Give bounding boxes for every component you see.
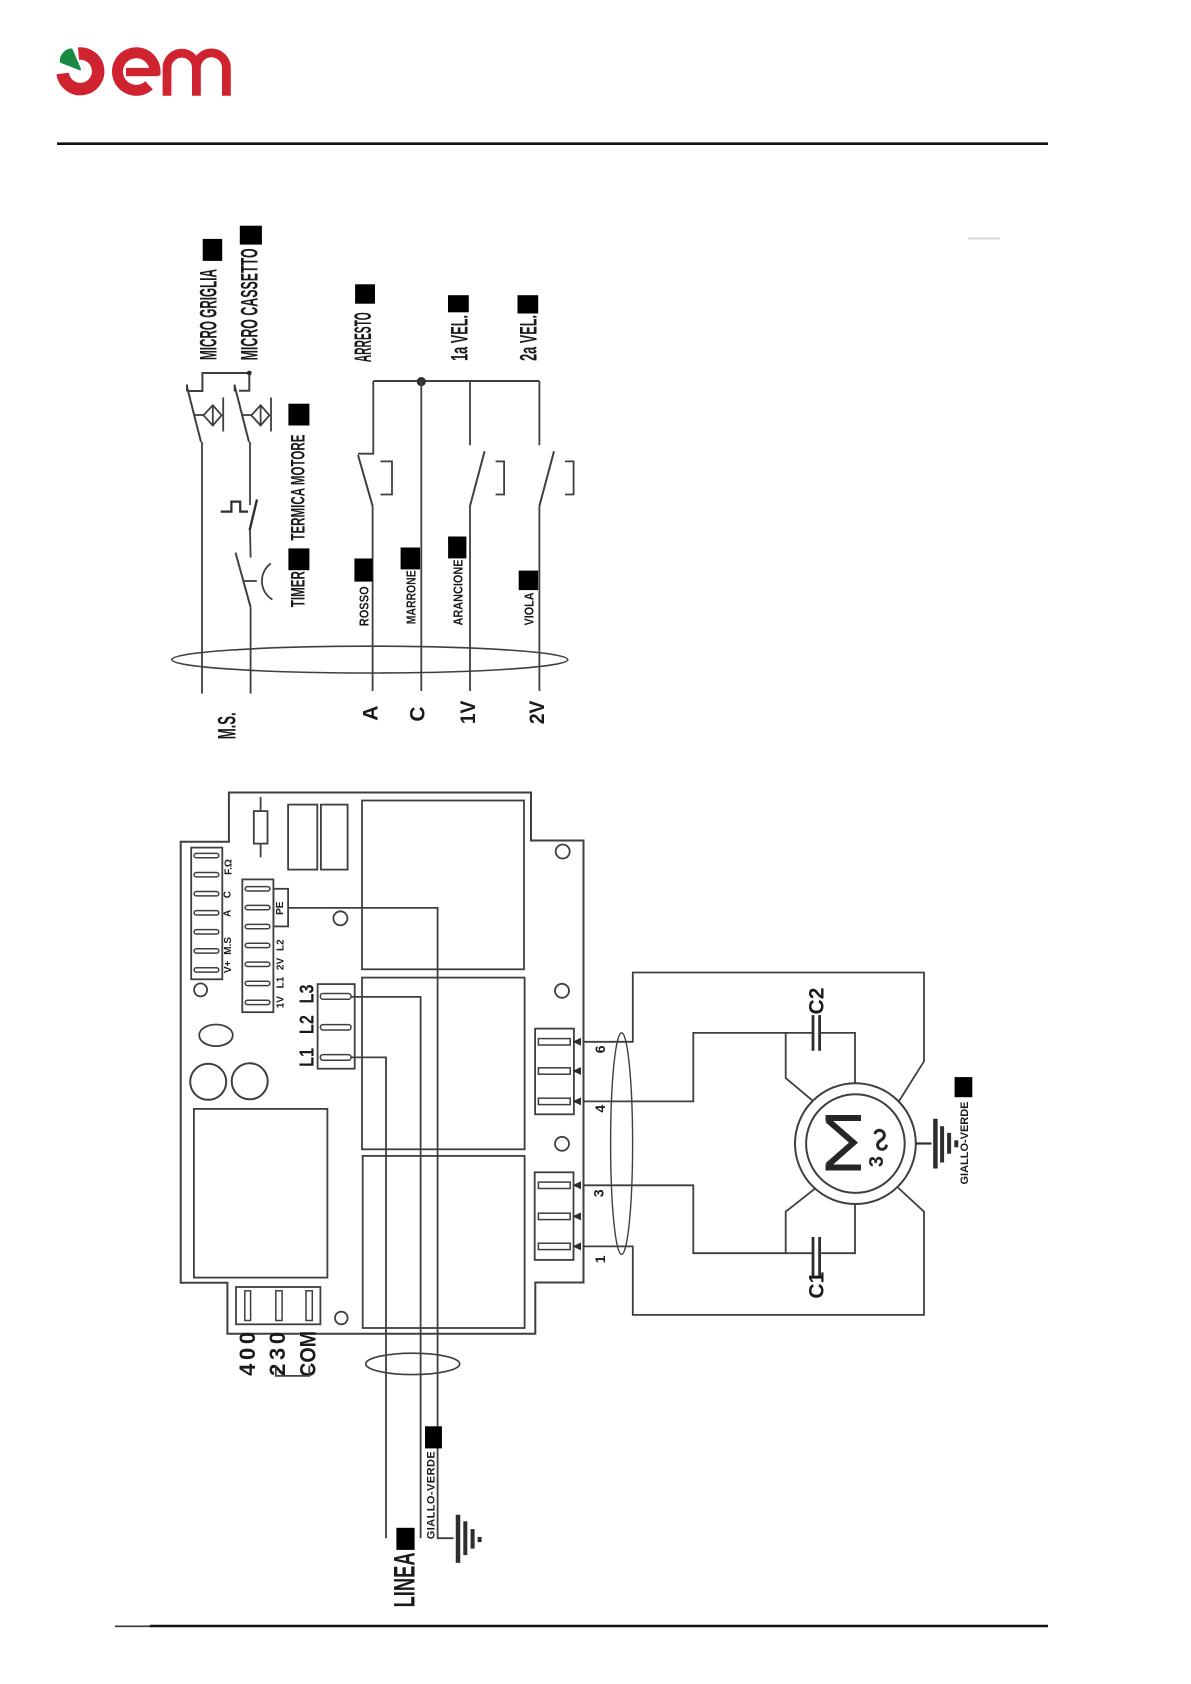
black square label mark (giallo-verde motor) (955, 1077, 973, 1097)
svg-text:4: 4 (592, 1105, 608, 1113)
black square label mark (linea) (396, 1528, 414, 1550)
connector 400/230/COM (236, 1287, 320, 1324)
L3 wire (351, 997, 421, 1538)
fuse F1 (254, 797, 268, 857)
svg-text:VIOLA: VIOLA (521, 592, 536, 625)
wire thermal to timer (249, 530, 252, 557)
relay K3 (363, 1156, 525, 1328)
svg-text:1V: 1V (457, 701, 480, 725)
svg-text:1V: 1V (276, 996, 287, 1009)
svg-text:C: C (223, 891, 234, 898)
svg-text:PE: PE (275, 901, 286, 915)
svg-text:A: A (360, 706, 383, 721)
micro switch S1 (MICRO GRIGLIA) (187, 385, 223, 443)
black square label mark (marrone) (401, 548, 421, 570)
svg-text:TIMER: TIMER (288, 571, 310, 607)
2a VEL contact (NO) (539, 381, 573, 506)
oval pad (199, 1025, 233, 1047)
svg-text:M.S: M.S (223, 937, 234, 955)
svg-text:2a VEL.: 2a VEL. (516, 315, 543, 361)
relay block A (288, 805, 317, 870)
relay K2 (362, 978, 525, 1150)
svg-text:3: 3 (591, 1189, 607, 1197)
wire S2 to thermal (249, 442, 251, 505)
supply bus wire (373, 380, 539, 382)
hole circle left 2 (232, 1063, 268, 1099)
svg-text:1a VEL.: 1a VEL. (446, 315, 473, 361)
black square label mark (viola) (519, 571, 539, 591)
svg-text:A: A (223, 910, 234, 917)
svg-text:TERMICA MOTORE: TERMICA MOTORE (288, 435, 310, 541)
wire pin1 outer loop (584, 1188, 925, 1315)
wire link between micro switches (188, 373, 250, 391)
svg-text:L2: L2 (276, 939, 287, 951)
svg-text:2V: 2V (276, 958, 287, 971)
svg-text:L2: L2 (296, 1015, 318, 1034)
wire timer down (250, 607, 252, 693)
1a VEL contact (NO) (470, 381, 504, 506)
wire C (marrone) column (420, 381, 422, 691)
mounting hole bottom (335, 1312, 348, 1325)
black square label mark (micro griglia) (203, 239, 223, 261)
ARRESTO contact (NC) (358, 381, 392, 506)
thermal overload contact (TERMICA MOTORE) (221, 500, 257, 531)
connector CN1 (upper right) (535, 1029, 574, 1115)
black square label mark (timer) (288, 548, 309, 570)
capacitor C1 (813, 1237, 820, 1277)
black square label mark (2a vel) (518, 295, 539, 313)
footer rule (115, 1625, 152, 1627)
bracket 230-COM (276, 1366, 310, 1376)
PCB board outline (181, 793, 584, 1334)
mounting hole top right (556, 845, 570, 859)
mounting hole right lower (555, 1137, 569, 1151)
black square label mark (arancione) (448, 537, 466, 559)
capacitor C2 (813, 1015, 820, 1051)
svg-text:V+: V+ (223, 960, 234, 973)
black square label mark (arresto) (355, 284, 375, 303)
svg-text:C2: C2 (806, 988, 829, 1015)
wire C2 to motor top (820, 1033, 855, 1083)
pin arrows CN2 (573, 1181, 582, 1189)
svg-text:GIALLO-VERDE: GIALLO-VERDE (959, 1102, 971, 1185)
wire C1 to motor bottom (820, 1204, 855, 1253)
svg-text:3: 3 (866, 1156, 888, 1167)
svg-text:F.Ω: F.Ω (223, 859, 234, 875)
motor M1 (795, 1083, 916, 1204)
connector CN2 (lower right) (535, 1172, 574, 1260)
motor earth wire (916, 1142, 932, 1144)
svg-text:230: 230 (265, 1332, 290, 1376)
motor cable ellipse (611, 1033, 633, 1255)
black square label mark (micro cassetto) (240, 226, 262, 245)
bottom cable ellipse (366, 1353, 460, 1374)
svg-text:LINEA: LINEA (388, 1552, 421, 1607)
svg-text:L1: L1 (276, 976, 287, 988)
terminal block L1 L2 L3 (318, 984, 355, 1069)
junction dot (247, 371, 252, 376)
wire 1V (arancione) column (469, 506, 471, 691)
PE box (273, 889, 288, 927)
wire pin4 inner loop (584, 1033, 812, 1102)
connector J2 (242, 879, 273, 1012)
wire 2V (viola) column (538, 506, 540, 691)
svg-text:GIALLO-VERDE: GIALLO-VERDE (426, 1451, 438, 1539)
mounting hole right mid (555, 984, 569, 998)
wire pin3 inner loop (584, 1185, 812, 1253)
OEM logo (61, 49, 227, 95)
hole circle left 1 (190, 1064, 226, 1100)
earth symbol (bottom) (458, 1515, 480, 1563)
svg-text:C1: C1 (806, 1271, 829, 1298)
header rule (57, 142, 1048, 145)
mounting hole mid top (333, 911, 347, 925)
svg-text:ROSSO: ROSSO (357, 586, 372, 626)
transformer block (194, 1109, 328, 1278)
svg-text:C: C (407, 706, 430, 721)
bus junction dot (node C) (417, 377, 426, 386)
earth symbol (motor) (935, 1119, 956, 1169)
black square label mark (1a vel) (448, 295, 469, 312)
relay K1 (362, 801, 524, 970)
svg-text:ARANCIONE: ARANCIONE (451, 559, 466, 625)
svg-text:L3: L3 (296, 985, 318, 1004)
svg-text:MICRO CASSETTO: MICRO CASSETTO (236, 248, 263, 360)
relay block B (321, 805, 348, 870)
pin arrows CN1 (573, 1038, 582, 1046)
mounting hole below J1 (194, 983, 207, 996)
wire A (rosso) column (372, 506, 374, 691)
svg-text:400: 400 (235, 1332, 260, 1376)
black square label mark (rosso) (354, 559, 372, 582)
black square label mark (termica motore) (288, 404, 309, 426)
svg-text:2V: 2V (526, 701, 549, 725)
timer contact (236, 553, 273, 608)
cable bundle ellipse (172, 646, 568, 673)
wire M.S. column (201, 442, 203, 694)
svg-text:M.S.: M.S. (214, 712, 242, 739)
svg-text:MARRONE: MARRONE (403, 570, 418, 624)
faint mark top right (968, 237, 1000, 239)
micro switch S2 (MICRO CASSETTO) (235, 385, 271, 443)
svg-text:COM: COM (295, 1331, 320, 1377)
branch to motor bottom-left (786, 1189, 815, 1254)
svg-text:L1: L1 (296, 1048, 318, 1067)
connector J1 (191, 848, 222, 980)
svg-text:ARRESTO: ARRESTO (350, 312, 377, 362)
wire pin6 outer loop (584, 973, 925, 1102)
svg-text:1: 1 (592, 1255, 608, 1263)
black square label mark (giallo-verde bottom) (425, 1426, 442, 1448)
svg-text:6: 6 (592, 1045, 608, 1053)
L1 wire (351, 1057, 386, 1538)
branch to motor top-left (786, 1033, 813, 1101)
PE earth wire (288, 908, 454, 1538)
svg-text:MICRO GRIGLIA: MICRO GRIGLIA (195, 269, 222, 360)
